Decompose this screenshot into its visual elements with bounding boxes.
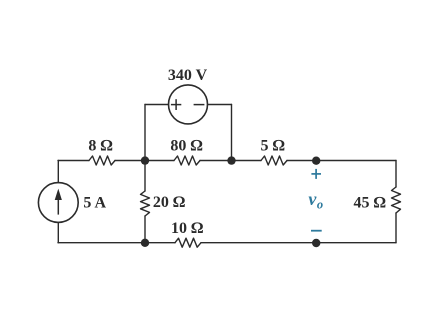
wire left vertical above current source: [57, 161, 59, 183]
svg-text:10 Ω: 10 Ω: [171, 220, 203, 237]
wire voltage source loop left vertical: [144, 105, 146, 161]
svg-text:5 A: 5 A: [83, 195, 106, 212]
node C dot (vo plus terminal): [312, 157, 320, 165]
resistor 5ohm: [261, 156, 287, 165]
wire top rail between 8ohm and node A: [115, 160, 174, 162]
wire 20ohm branch lower: [144, 216, 146, 243]
current source I1 circle: [38, 183, 78, 223]
svg-text:340 V: 340 V: [168, 67, 208, 84]
svg-text:45 Ω: 45 Ω: [354, 194, 386, 211]
wire right vertical above 45ohm: [395, 161, 397, 188]
wire top rail left segment: [58, 160, 89, 162]
resistor 20ohm: [141, 191, 150, 216]
svg-text:8 Ω: 8 Ω: [88, 138, 112, 155]
wire bottom rail right segment: [201, 242, 396, 244]
wire 20ohm branch upper: [144, 161, 146, 192]
node E dot (vo minus terminal): [312, 239, 320, 247]
wire left vertical below current source: [57, 222, 59, 242]
voltage source V1 circle: [169, 85, 208, 124]
wire voltage source loop right horizontal: [208, 104, 232, 106]
svg-text:80 Ω: 80 Ω: [170, 138, 202, 155]
node A dot: [141, 156, 149, 164]
resistor 45ohm: [392, 187, 401, 213]
wire top rail between 80ohm and node B: [200, 160, 261, 162]
node B dot: [227, 156, 235, 164]
svg-text:vo: vo: [308, 189, 323, 211]
wire bottom rail left segment: [58, 242, 175, 244]
voltage source plus sign: [171, 99, 181, 110]
svg-text:5 Ω: 5 Ω: [260, 138, 284, 155]
voltage source minus sign: [194, 104, 205, 106]
wire right vertical below 45ohm: [395, 213, 397, 243]
wire voltage source loop right vertical: [231, 105, 233, 161]
resistor 8ohm: [89, 156, 115, 165]
resistor 80ohm: [174, 156, 200, 165]
svg-text:20 Ω: 20 Ω: [153, 194, 185, 211]
wire voltage source loop left horizontal: [145, 104, 169, 106]
wire top rail right segment: [287, 160, 396, 162]
vo minus polarity mark: [311, 230, 322, 232]
current source arrow: [55, 190, 61, 214]
node D dot (bottom of 20ohm): [141, 239, 149, 247]
vo plus polarity mark: [311, 169, 321, 179]
resistor 10ohm: [175, 238, 201, 247]
